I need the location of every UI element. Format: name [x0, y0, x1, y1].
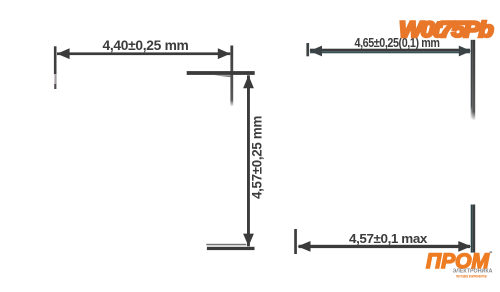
top-left dimension line — [57, 52, 230, 55]
right object edge vertical line, teal left stripe upper — [471, 40, 473, 120]
bottom tick line (lower extension of vertical dimension) — [207, 247, 255, 250]
svg-text:4,57±0,1 max: 4,57±0,1 max — [349, 231, 428, 246]
top-right arrow left — [310, 46, 323, 57]
top-right dimension: left extension tick — [306, 43, 309, 56]
top-left dimension arrow right — [218, 48, 231, 59]
right object edge vertical line lower segment teal stripe — [471, 205, 473, 253]
bottom-right arrow right — [458, 241, 471, 252]
faint wedge under top tick — [214, 75, 232, 77]
top-right arrow right — [459, 46, 472, 57]
top-left dimension arrow left — [57, 48, 70, 59]
svg-text:поставка компонентов: поставка компонентов — [456, 274, 487, 279]
right object edge vertical line lower segment — [472, 205, 475, 253]
bottom-right left extension tick — [294, 229, 297, 254]
middle dimension arrow up — [243, 75, 254, 88]
top-right dimension line dark part — [310, 49, 470, 52]
corner vertical line (right edge of left part) — [230, 46, 233, 107]
middle vertical dimension line — [247, 75, 250, 246]
logo trademark dot — [490, 251, 493, 253]
left extension line darker tail — [54, 84, 56, 89]
left extension line light middle part — [54, 74, 56, 84]
left extension line (left object edge), dark upper part — [54, 46, 57, 74]
svg-text:4,40±0,25 mm: 4,40±0,25 mm — [103, 38, 189, 53]
right object edge vertical line, gray upper segment (fading) — [472, 40, 475, 120]
bottom-right dimension line — [299, 245, 471, 248]
top tick line (upper extension of vertical dimension) — [187, 71, 255, 75]
faint thin line above bottom tick — [206, 244, 246, 246]
svg-text:4,57±0,25 mm: 4,57±0,25 mm — [250, 116, 265, 199]
bottom-right arrow left — [298, 241, 311, 252]
svg-text:W0t75Pb: W0t75Pb — [399, 17, 493, 42]
middle dimension arrow down — [243, 234, 254, 247]
top-right dimension line teal underside — [310, 51, 470, 53]
